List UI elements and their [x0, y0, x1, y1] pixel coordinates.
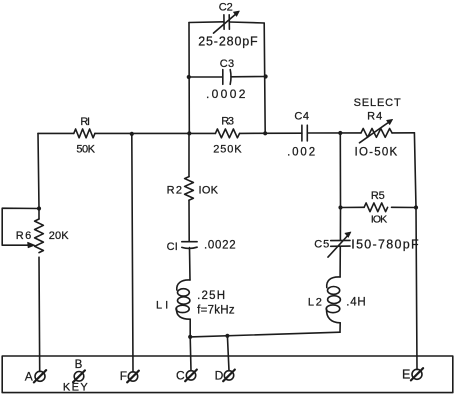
wire: bottom bus [190, 332, 340, 337]
wire: right branch upper [414, 133, 416, 208]
wire: R5 left lead [341, 206, 365, 208]
variable capacitor C5 [314, 232, 419, 257]
svg-text:CI: CI [167, 241, 178, 253]
terminal C [176, 369, 197, 383]
wire: top loop right vertical [264, 23, 265, 133]
svg-text:F: F [120, 369, 127, 383]
wire: main bus R1 to R3 [95, 132, 215, 134]
inductor L2 [308, 277, 366, 323]
wire: C3 right lead [231, 76, 266, 78]
resistor R5 [364, 190, 387, 225]
junction: bus at top loop right [263, 131, 267, 135]
wire: C5 to L2 [339, 246, 341, 277]
wire: top loop top-left [189, 21, 224, 24]
wire: main bus R3 to C4 [240, 132, 302, 134]
wire: R6 feedback loop [2, 208, 39, 245]
svg-text:E: E [402, 368, 410, 382]
svg-text:R4: R4 [367, 110, 382, 122]
variable resistor R4 [355, 110, 398, 158]
terminal A [25, 369, 46, 383]
svg-text:IOK: IOK [371, 214, 387, 226]
capacitor C3 [206, 58, 246, 101]
wire: L2 to bottom bus [339, 323, 341, 332]
wire: C1 to L1 [189, 248, 192, 280]
svg-text:A: A [25, 369, 33, 383]
svg-text:C2: C2 [219, 1, 233, 13]
terminal D [215, 369, 235, 383]
resistor R3 [213, 116, 242, 156]
svg-text:C4: C4 [294, 110, 309, 122]
inductor L1 [156, 280, 235, 319]
junction: bus at center branch [187, 131, 191, 135]
svg-text:B: B [75, 359, 83, 371]
svg-text:50K: 50K [76, 143, 95, 155]
junction: bus at C4-R4 node [338, 131, 342, 135]
terminal F [120, 369, 139, 383]
svg-text:25-280pF: 25-280pF [198, 34, 258, 48]
svg-text:.4H: .4H [346, 296, 366, 308]
wire: C3 left lead [189, 76, 223, 78]
svg-text:C: C [176, 369, 185, 383]
wire: R5 right lead [392, 206, 417, 208]
svg-text:R2: R2 [167, 184, 182, 196]
svg-text:L2: L2 [308, 297, 322, 309]
potentiometer R6 [16, 209, 69, 372]
svg-text:IO-50K: IO-50K [355, 147, 398, 159]
svg-text:250K: 250K [213, 143, 242, 155]
junction: C3 right [264, 74, 268, 78]
junction: bottom bus at C branch [188, 335, 192, 339]
variable capacitor C2 [198, 1, 258, 48]
wire: top loop top-right [229, 22, 264, 23]
junction: C3 left [187, 75, 191, 79]
terminal B KEY [63, 359, 88, 394]
svg-text:.002: .002 [287, 146, 315, 158]
svg-text:D: D [215, 369, 224, 383]
wire: R2 to C1 [188, 200, 190, 242]
wire: D branch [227, 336, 229, 371]
wire: top loop left vertical [188, 23, 190, 134]
wire: R5 node down to C5 [339, 208, 341, 241]
capacitor C4 [287, 110, 315, 158]
junction: R5 right [414, 205, 418, 209]
wire: main bus C4 to R4 [307, 132, 361, 134]
wire: C branch [189, 337, 192, 371]
svg-text:.25H: .25H [197, 290, 225, 302]
wire: main bus R4 to right corner [392, 132, 414, 134]
capacitor C1 [167, 240, 236, 254]
svg-text:f=7kHz: f=7kHz [197, 305, 235, 317]
resistor R2 [167, 133, 219, 200]
svg-text:20K: 20K [49, 230, 69, 242]
junction: bottom bus at D branch [225, 334, 229, 338]
junction: R6 top [37, 206, 41, 210]
svg-text:R5: R5 [371, 190, 385, 202]
svg-text:C3: C3 [220, 58, 234, 70]
svg-text:.0002: .0002 [206, 87, 246, 101]
terminal E [402, 368, 423, 382]
svg-text:R6: R6 [16, 230, 31, 242]
svg-text:RI: RI [80, 116, 90, 128]
wire: L1 to bottom bus [189, 319, 191, 337]
wire: left branch down [38, 133, 39, 208]
svg-text:R3: R3 [221, 116, 234, 128]
svg-text:KEY: KEY [63, 381, 88, 393]
wire: right branch lower to E [416, 208, 417, 370]
wire: node C4R4 down to R5 [339, 133, 341, 208]
terminal strip box [2, 356, 453, 393]
resistor R1 [74, 116, 96, 156]
svg-text:SELECT: SELECT [354, 97, 401, 109]
svg-text:C5: C5 [314, 239, 329, 251]
junction: R5 left [338, 205, 342, 209]
wire: F branch [132, 134, 133, 372]
wire: main bus left segment [38, 132, 74, 134]
junction: bus at F branch [130, 132, 134, 136]
svg-text:IOK: IOK [199, 184, 219, 196]
svg-text:.0022: .0022 [204, 240, 236, 252]
svg-text:LI: LI [156, 300, 168, 312]
